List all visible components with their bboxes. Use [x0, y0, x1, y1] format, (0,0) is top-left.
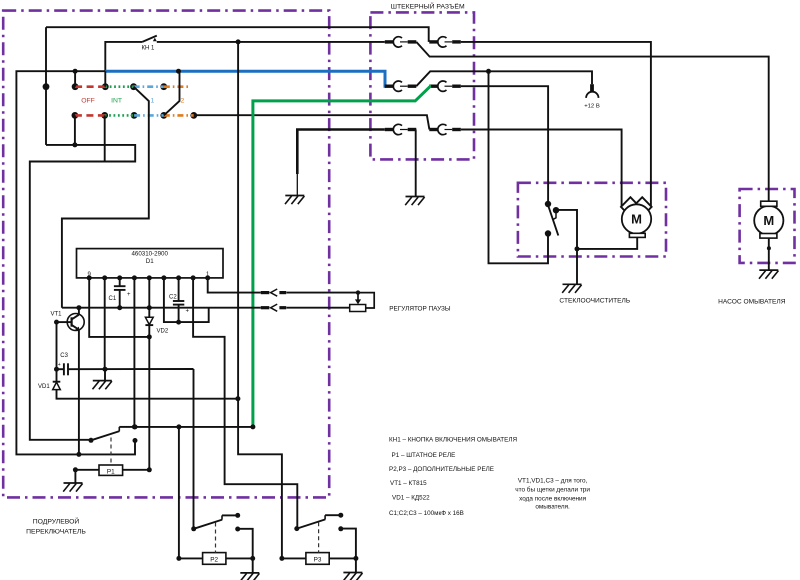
switch row upper INT segment (green dotted): [105, 85, 133, 88]
washer pump enclosure: [740, 189, 795, 263]
svg-text:+: +: [127, 292, 131, 298]
wire: lower contact1 stub: [74, 115, 76, 144]
diode VD2: [145, 317, 168, 334]
wire: left feed rail (black part before blue): [16, 71, 135, 454]
wire: +12V feed top rail to connector row1 right: [46, 27, 429, 42]
svg-text:P3: P3: [314, 556, 322, 563]
wire: upper contact1 riser to +12 rail and down to link bus: [45, 27, 47, 145]
switch row lower: contact studs: [72, 112, 198, 119]
svg-text:P1: P1: [107, 468, 115, 475]
diode VD1: [38, 369, 60, 390]
wire: KH1 rail down to relay P3 coil: [238, 42, 282, 559]
wire: row1 left output diagonal to washer feed line: [416, 42, 768, 201]
wiper park switch: [545, 201, 559, 237]
wiper motor enclosure: [518, 183, 666, 257]
switch KH1 (washer button): [142, 36, 157, 52]
svg-text:+: +: [58, 362, 61, 368]
relay P3 coil: [306, 522, 329, 564]
wire: ground node to relay P2 common: [193, 369, 195, 529]
wire: parking contact feed: [489, 71, 549, 263]
relay contacts P1: [89, 424, 138, 443]
junction on blue feed: [73, 69, 78, 74]
junction KH1/relay rail: [236, 39, 241, 44]
switch row upper position-2 segment (orange): [164, 85, 191, 88]
ground wiper motor: [562, 284, 581, 293]
switch row upper: contact studs: [43, 83, 168, 90]
capacitor C2: [169, 278, 190, 322]
connector contact pair row2 right: [429, 81, 461, 91]
junction on link bus: [72, 142, 77, 147]
wire: row3 left output to ground: [415, 130, 417, 197]
connector enclosure (штекерный разъём box): [370, 12, 474, 159]
svg-text:НАСОС ОМЫВАТЕЛЯ: НАСОС ОМЫВАТЕЛЯ: [718, 299, 786, 306]
svg-text:C3: C3: [60, 353, 68, 359]
svg-text:2: 2: [181, 97, 185, 104]
svg-text:INT: INT: [111, 97, 122, 104]
junction rail/VT1 collector: [76, 305, 81, 310]
switch row lower position-1 segment (light blue): [134, 114, 164, 117]
svg-text:VD2: VD2: [157, 329, 169, 335]
wire: motor bottom to junction: [577, 237, 637, 249]
IC pin junction dots: [87, 275, 211, 280]
junction rail/C1: [117, 305, 122, 310]
disconnect terminal regulator lower: [261, 304, 286, 311]
svg-text:ШТЕКЕРНЫЙ РАЗЪЁМ: ШТЕКЕРНЫЙ РАЗЪЁМ: [391, 1, 465, 10]
wire: row3 left input from ground: [297, 130, 385, 175]
connector contact pair row1 left: [385, 37, 417, 47]
connector contact pair row2 left: [385, 81, 417, 91]
wiper motor brush left: [621, 197, 640, 216]
svg-text:VD1 – КД522: VD1 – КД522: [392, 495, 430, 502]
junction +12V / parking feed: [486, 69, 491, 74]
svg-text:VT1: VT1: [51, 312, 63, 318]
wire: pin8 ground leg: [104, 278, 106, 381]
transistor Q VT1: [51, 308, 85, 331]
svg-text:омывателя.: омывателя.: [535, 503, 570, 510]
wire: lower contact5 to row3 right connector: [194, 115, 430, 129]
wire: P2 coil left: [179, 557, 203, 559]
svg-text:что бы щетки делали три: что бы щетки делали три: [515, 486, 590, 494]
ground P1 coil: [63, 483, 82, 492]
junction P1 contact / pin6: [132, 424, 137, 429]
ground P3: [343, 573, 362, 580]
junction KH1 rail / VD1 branch: [235, 396, 240, 401]
wire: pump to ground: [768, 238, 770, 270]
wire: KH1 branch riser: [105, 42, 142, 71]
switch row lower position-2 segment (orange): [164, 114, 194, 117]
capacitor C1: [109, 278, 132, 308]
relay contacts P3: [294, 513, 343, 532]
svg-text:+: +: [186, 309, 190, 315]
svg-text:РЕГУЛЯТОР ПАУЗЫ: РЕГУЛЯТОР ПАУЗЫ: [389, 306, 451, 313]
svg-text:P2: P2: [210, 556, 218, 563]
wire: pin5 / VD2 branch upper: [148, 278, 150, 317]
svg-text:Р2,Р3 – ДОПОЛНИТЕЛЬНЫЕ РЕЛЕ: Р2,Р3 – ДОПОЛНИТЕЛЬНЫЕ РЕЛЕ: [389, 466, 494, 473]
connector contact pair row3 right: [429, 124, 461, 134]
svg-text:+12 В: +12 В: [584, 104, 600, 110]
svg-text:VD1: VD1: [38, 384, 50, 390]
wire: link bus: [30, 145, 135, 440]
relay contacts P2: [191, 513, 240, 532]
wire: KH1 to row1 left connector: [157, 41, 385, 43]
svg-text:M: M: [631, 212, 642, 227]
svg-text:C2: C2: [169, 294, 177, 300]
capacitor C3: [57, 353, 194, 375]
wire: pin1 to pause regulator top: [208, 278, 261, 293]
junction rail/VD2: [147, 305, 152, 310]
wire: INT timing rail: [62, 307, 261, 309]
junction VT1 base node: [54, 320, 59, 325]
wire: VD1 to KH1 rail: [57, 390, 238, 399]
junction VD2/pin9: [147, 334, 152, 339]
motor wiper M1: [622, 204, 651, 237]
svg-text:КН 1: КН 1: [142, 46, 155, 52]
wire: pin2 to relay P3 common: [193, 278, 297, 529]
lever position-2 wiper: [164, 71, 180, 115]
wire: P3 coil right to ground node: [329, 557, 356, 559]
wiper motor brush right: [633, 197, 652, 216]
svg-text:Р1 – ШТАТНОЕ РЕЛЕ: Р1 – ШТАТНОЕ РЕЛЕ: [392, 452, 456, 459]
ground pump: [759, 270, 778, 279]
disconnect terminal regulator upper: [261, 289, 286, 296]
wire: row2 left output diagonal to +12V tap: [416, 71, 592, 86]
switch row upper position-1 segment (light blue): [134, 85, 164, 88]
steering column switch enclosure (dash-dot border): [3, 11, 329, 498]
ground row3 input: [285, 196, 304, 205]
ground IC pin8: [93, 381, 112, 390]
junction C2/bus: [176, 320, 181, 325]
motor pump M2: [754, 201, 783, 238]
wire: pin4 to C2 bus: [164, 278, 209, 322]
svg-text:OFF: OFF: [81, 97, 95, 104]
svg-text:С1;С2;С3 – 100мкФ х 16В: С1;С2;С3 – 100мкФ х 16В: [389, 510, 464, 517]
wire: P3 coil left: [282, 557, 306, 559]
wire: upper contact2 stub: [74, 71, 76, 87]
wire: P3 second contact to ground node: [341, 529, 356, 574]
terminal +12V: [584, 84, 600, 109]
ground P2: [240, 573, 259, 580]
lever INT position wiper: [62, 87, 149, 308]
svg-text:VT1,VD1,C3 – для того,: VT1,VD1,C3 – для того,: [518, 477, 588, 484]
legend note: [515, 477, 590, 510]
wire: VD2 to P1 coil: [123, 325, 150, 470]
svg-text:C1: C1: [109, 296, 117, 302]
wire: park switch to motor minus and ground: [556, 210, 577, 249]
svg-text:КН1 – КНОПКА ВКЛЮЧЕНИЯ ОМЫВАТЕ: КН1 – КНОПКА ВКЛЮЧЕНИЯ ОМЫВАТЕЛЯ: [389, 436, 517, 443]
junction base/C3: [54, 367, 59, 372]
wire: base node down: [56, 322, 58, 369]
wire: row1 right output to wiper right brush: [461, 42, 651, 207]
switch row lower INT segment (green dotted): [105, 114, 134, 117]
wire: P1 upper contact line to green node: [134, 426, 253, 428]
svg-text:460310-2900: 460310-2900: [131, 251, 168, 258]
IC U D1 460310-2900: [77, 249, 224, 278]
relay P2 coil: [203, 523, 226, 565]
svg-text:ПЕРЕКЛЮЧАТЕЛЬ: ПЕРЕКЛЮЧАТЕЛЬ: [26, 529, 86, 536]
potentiometer R pause regulator: [350, 290, 375, 311]
wire: upper contact3 stub: [104, 71, 106, 87]
svg-text:ПОДРУЛЕВОЙ: ПОДРУЛЕВОЙ: [33, 517, 80, 526]
svg-text:СТЕКЛООЧИСТИТЕЛЬ: СТЕКЛООЧИСТИТЕЛЬ: [559, 298, 630, 305]
wire: P2 coil feed riser: [178, 427, 180, 559]
junction blue/position-2 lever: [176, 69, 181, 74]
wire: pin6 to P1 upper contact: [133, 278, 135, 427]
junction motor return: [575, 246, 580, 251]
wire blue: switch common to row2 left connector: [105, 71, 386, 86]
wire: P2 coil right to ground node: [226, 557, 253, 559]
junction contact line / P2 coil feed: [176, 424, 181, 429]
switch row upper OFF segment (red): [75, 85, 105, 88]
relay P1 coil: [99, 438, 123, 476]
svg-text:хода после включения: хода после включения: [519, 496, 586, 503]
svg-text:VT1 – КТ815: VT1 – КТ815: [390, 480, 427, 487]
junction green wire end: [250, 424, 255, 429]
svg-text:D1: D1: [146, 258, 154, 265]
wire: P2 second contact to ground node: [238, 529, 253, 574]
switch row lower OFF segment (red): [75, 114, 105, 117]
wire: pin9 to VD2 cathode node: [89, 278, 149, 337]
wire: VT1 emitter down: [78, 330, 80, 455]
wire green: row2 right connector to P1 contact line: [253, 86, 431, 427]
connector contact pair row3 left: [385, 124, 417, 134]
ground row3 output: [405, 197, 424, 206]
legend list: [389, 436, 517, 517]
svg-text:M: M: [763, 213, 774, 228]
wire: lower contact2 stub: [104, 115, 106, 161]
junction emitter/P1 contact line: [76, 452, 81, 457]
wire: P1 coil left to ground: [75, 470, 99, 483]
wire: row3 right output to wiper left brush: [461, 130, 622, 207]
svg-text:1: 1: [151, 97, 155, 104]
connector contact pair row1 right: [429, 37, 461, 47]
wire: row2 right output to wiper park switch: [461, 86, 548, 204]
junction C3/pin8 ground node: [103, 367, 108, 372]
